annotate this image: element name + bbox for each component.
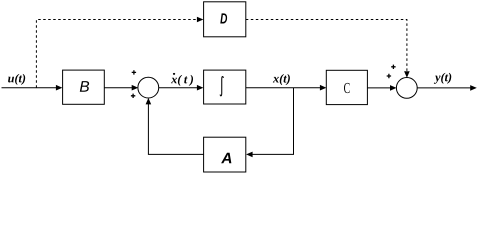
wire sum2 to output y(t) xyxy=(417,87,470,89)
wire sum1 to integrator xyxy=(159,87,198,89)
node x(t) label xyxy=(273,74,290,85)
node plus sign sum1 lower xyxy=(131,94,135,98)
node xdot(t) label xyxy=(171,75,193,86)
block integrator xyxy=(204,70,246,104)
summing junction sum2 xyxy=(396,78,417,99)
block C xyxy=(326,70,367,104)
block A xyxy=(204,137,246,172)
block B xyxy=(63,70,105,104)
wire dashed D to sum2 xyxy=(246,20,407,72)
wire dashed branch u(t) up to D xyxy=(36,20,197,88)
wire B to sum1 xyxy=(104,87,132,89)
wire branch x(t) down to A xyxy=(252,88,294,155)
node u(t) label xyxy=(8,74,25,85)
summing junction sum1 xyxy=(138,77,159,98)
block D xyxy=(204,2,246,37)
wire integrator to C xyxy=(246,87,321,89)
wire A to sum1 bottom xyxy=(148,104,203,155)
wire C to sum2 xyxy=(367,87,390,89)
node plus sign sum1 upper xyxy=(132,70,136,74)
wire input u(t) to B xyxy=(2,87,57,89)
node plus sign sum2 left xyxy=(387,74,391,78)
node y(t) label xyxy=(434,73,451,84)
node plus sign sum2 top xyxy=(391,65,395,69)
